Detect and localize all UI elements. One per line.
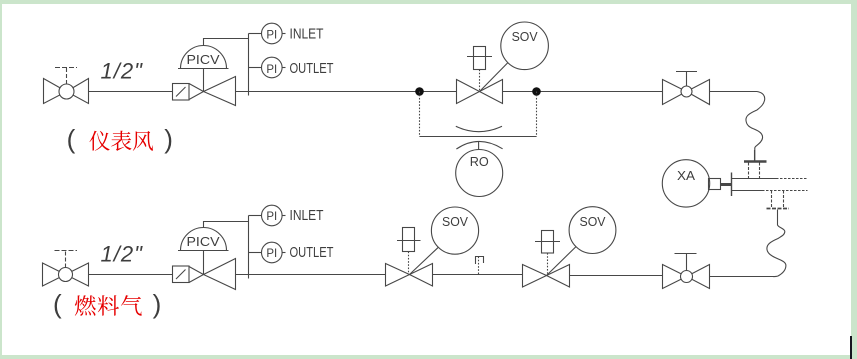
svg-text:PICV: PICV	[187, 52, 220, 67]
signal line valve to SOV bubble (top)	[480, 63, 509, 92]
solenoid valve body (top middle)	[457, 80, 503, 104]
burner pipe top wall	[732, 178, 776, 180]
regulator filter square (bottom PICV)	[173, 266, 190, 283]
svg-text:): )	[153, 289, 162, 319]
solenoid coil SOV2	[535, 231, 560, 276]
leader arc above RO bubble	[456, 141, 502, 149]
ball valve V4 (bottom right)	[663, 254, 710, 289]
wire: bypass bottom run	[420, 136, 537, 138]
node junction dot 1	[415, 87, 424, 96]
instrument PI inlet (top)	[262, 23, 324, 44]
wire: pipe from SOV1 to SOV2	[433, 274, 523, 276]
svg-text:INLET: INLET	[290, 207, 324, 224]
top hose connection flange	[744, 150, 767, 179]
burner inlet flange	[731, 173, 733, 197]
igniter plug body	[709, 179, 721, 190]
manifold riser (top)	[248, 34, 250, 96]
wire: pipe from PICV outlet to SOV valve	[235, 91, 456, 93]
wire: bypass right drop	[536, 92, 538, 137]
svg-text:PI: PI	[266, 64, 277, 76]
svg-text:OUTLET: OUTLET	[290, 244, 334, 261]
signal line SOV1 valve to bubble	[410, 247, 439, 274]
svg-text:1/2": 1/2"	[101, 59, 144, 84]
svg-text:PI: PI	[266, 30, 277, 42]
svg-text:1/2": 1/2"	[101, 242, 144, 267]
signal line from dome to manifold (bottom)	[204, 222, 249, 228]
branch to PI inlet (bottom)	[249, 215, 262, 217]
wire: pipe from right ball valve to hose	[710, 91, 757, 93]
wire: pipe from right ball valve to hose (bottom)	[710, 276, 774, 278]
branch to PI outlet (top)	[249, 67, 262, 69]
instrument SOV1 bubble	[431, 207, 478, 254]
burner pipe bottom wall	[732, 190, 762, 192]
node junction dot 2	[532, 87, 541, 96]
igniter stem (thick)	[721, 183, 732, 186]
svg-text:SOV: SOV	[580, 214, 606, 229]
solenoid coil (top middle)	[467, 47, 492, 92]
instrument PI outlet (bottom)	[262, 242, 334, 263]
svg-text:INLET: INLET	[290, 26, 324, 43]
flexible hose (bottom, from burner)	[767, 210, 786, 277]
svg-text:OUTLET: OUTLET	[290, 60, 334, 77]
branch to PI inlet (top)	[249, 33, 262, 35]
solenoid coil SOV1	[397, 228, 421, 275]
instrument XA	[662, 160, 709, 207]
actuator dome PICV (bottom)	[178, 228, 229, 251]
solenoid valve SOV1 body (bottom)	[386, 264, 433, 287]
control valve PICV body (top)	[189, 69, 236, 106]
wire: bypass left drop	[419, 92, 421, 137]
ball valve V2 (top right)	[663, 72, 710, 105]
signal line SOV2 valve to bubble	[547, 247, 577, 276]
branch to PI outlet (bottom)	[249, 252, 262, 254]
label instrument air 仪表风 (red chinese)	[89, 131, 153, 151]
regulator filter square (top PICV)	[173, 84, 190, 101]
svg-text:RO: RO	[470, 154, 489, 169]
ball valve V1 (top left)	[44, 68, 89, 104]
svg-text:SOV: SOV	[512, 29, 538, 44]
signal line from dome to manifold (top)	[204, 39, 249, 46]
wire: pipe from ball valve to PICV filter (bottom)	[89, 274, 173, 276]
svg-text:PICV: PICV	[187, 234, 220, 249]
svg-text:XA: XA	[677, 168, 695, 183]
svg-text:PI: PI	[266, 211, 277, 223]
svg-text:): )	[164, 124, 173, 154]
instrument SOV2 bubble	[569, 207, 616, 254]
bottom hose connection flange	[767, 191, 790, 209]
frame mark (bottom right dark tick)	[850, 336, 852, 359]
manifold riser (bottom)	[248, 216, 250, 279]
control valve PICV body (bottom)	[189, 251, 236, 290]
wire: pipe from ball valve to PICV filter	[89, 91, 173, 93]
instrument SOV (top)	[501, 22, 549, 70]
wire: pipe from SOV valve to right ball valve	[503, 91, 662, 93]
instrument RO restriction orifice	[456, 150, 503, 197]
instrument PI inlet (bottom)	[262, 205, 324, 226]
solenoid valve SOV2 body (bottom)	[523, 265, 570, 288]
wire: pipe from PICV outlet to SOV1 (bottom)	[236, 274, 386, 276]
leader tick RO	[478, 142, 480, 150]
flexible hose (top, to burner)	[746, 92, 765, 162]
svg-text:SOV: SOV	[442, 214, 468, 229]
hose sag arc above bypass	[456, 126, 502, 131]
instrument PI outlet (top)	[262, 57, 334, 78]
label fuel gas 燃料气 (red chinese)	[75, 295, 142, 316]
wire: pipe from SOV2 to right ball valve	[570, 275, 663, 277]
vent test connection	[476, 257, 484, 275]
ball valve V3 (bottom left)	[43, 251, 89, 287]
svg-text:PI: PI	[266, 248, 277, 260]
svg-text:(: (	[67, 124, 76, 154]
actuator dome PICV (top)	[178, 46, 229, 69]
svg-text:(: (	[53, 289, 62, 319]
